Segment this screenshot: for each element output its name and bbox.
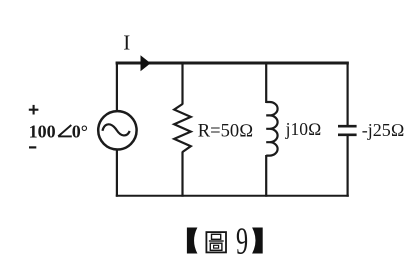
caption right lenticular bracket [252,228,263,254]
ac source sine wave [102,124,129,135]
svg-text:j10Ω: j10Ω [285,119,322,139]
capacitor C1 bottom lead [347,135,349,197]
current arrow [141,55,151,71]
inductor L1 branch top lead [265,62,267,103]
svg-text:I: I [123,30,130,54]
resistor R1 branch top lead [181,62,183,105]
svg-text:-j25Ω: -j25Ω [362,120,405,140]
caption CJK glyph tu (figure) [206,232,226,252]
label minus [29,146,36,148]
svg-text:0°: 0° [72,122,88,142]
wire bottom [116,195,349,197]
capacitor C1 branch top lead [347,62,349,126]
caption left lenticular bracket [187,228,198,254]
wire left branch bottom lead [116,150,118,197]
capacitor C1 bottom plate [338,134,357,137]
inductor L1 bottom lead [265,155,267,197]
ac source U1 circle [98,111,136,149]
wire top [116,62,349,65]
wire left branch top lead [116,62,118,111]
angle symbol [58,125,72,136]
svg-text:9: 9 [236,219,248,262]
resistor R1 bottom lead [181,152,183,197]
inductor L1 coil [266,102,277,156]
resistor R1 zigzag [174,104,191,152]
svg-text:100: 100 [29,122,56,142]
capacitor C1 top plate [338,125,357,128]
svg-text:R=50Ω: R=50Ω [198,122,253,142]
label plus [29,105,39,115]
